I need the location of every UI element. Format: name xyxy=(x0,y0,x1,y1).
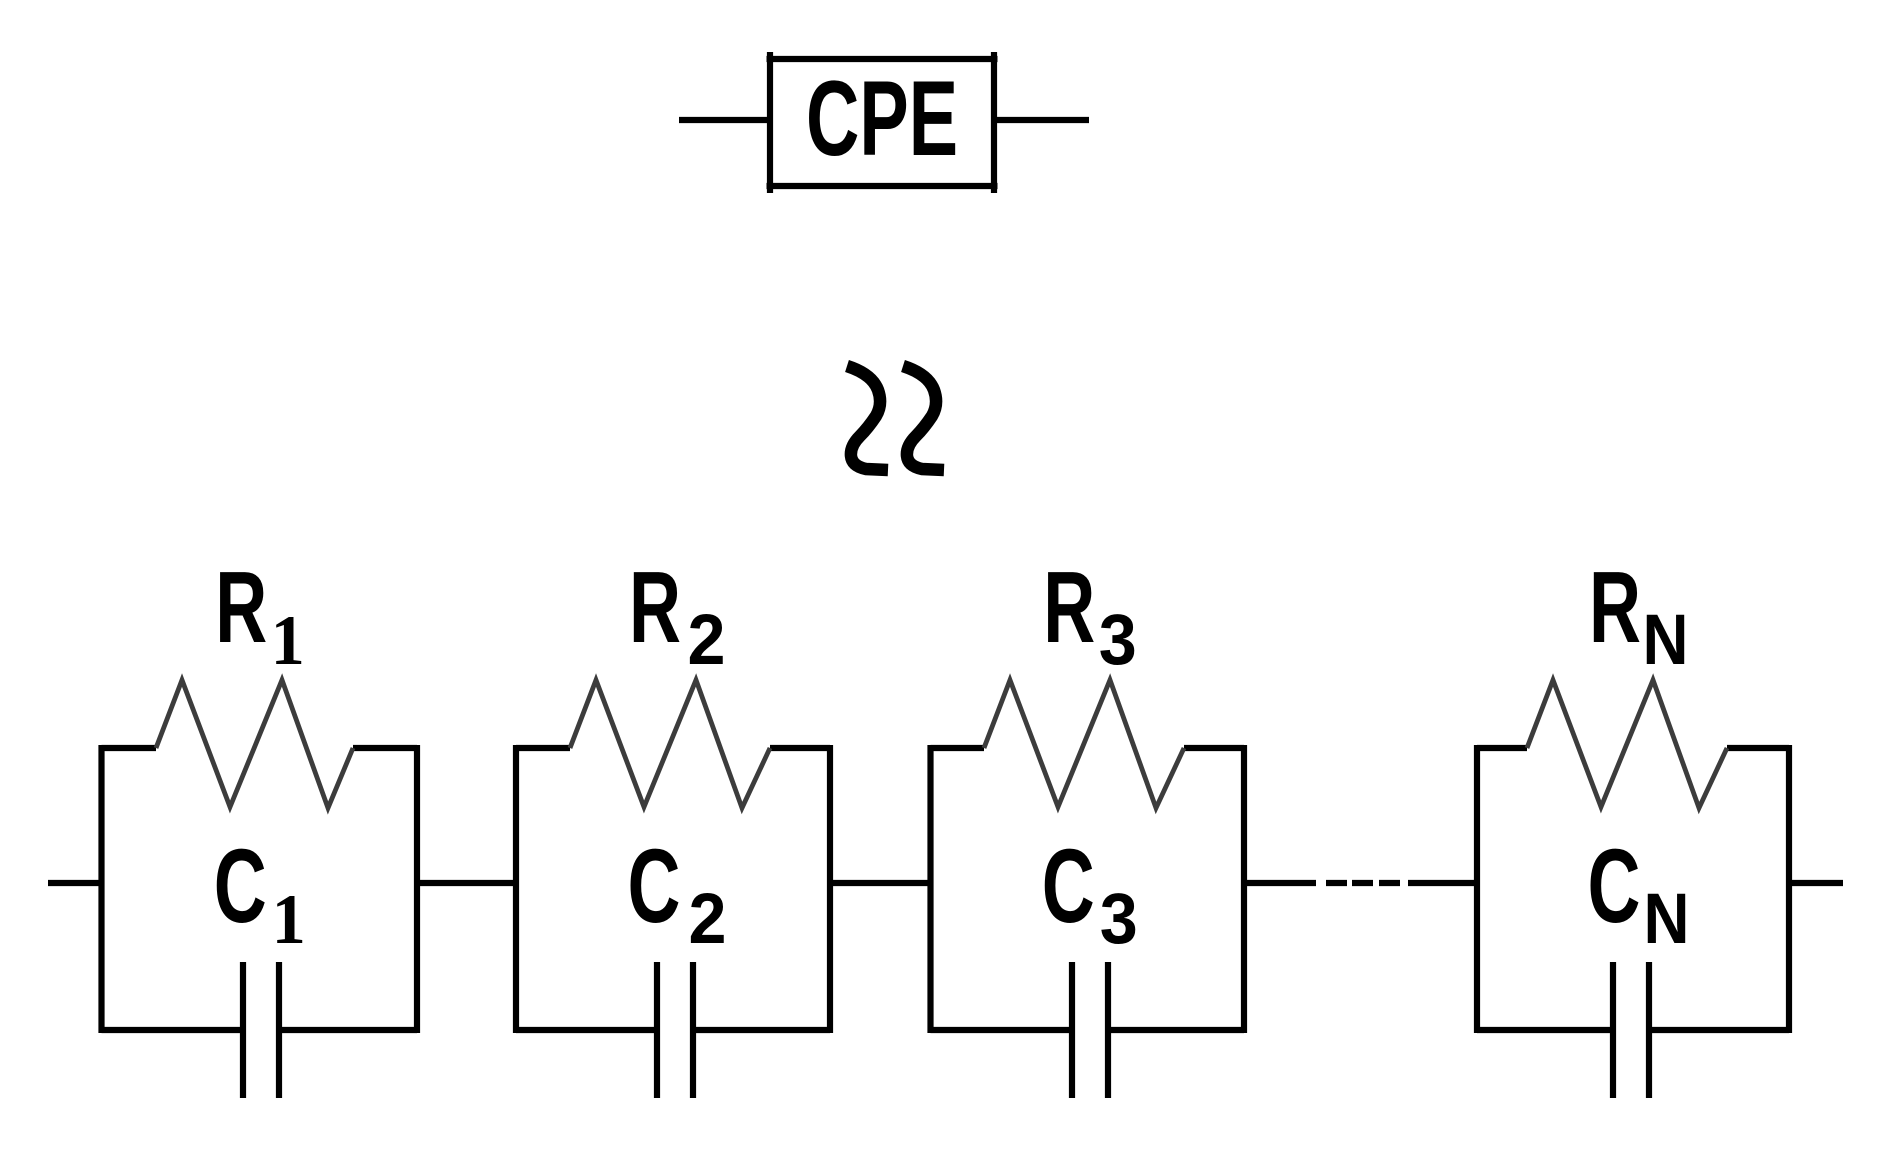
svg-text:3: 3 xyxy=(1099,601,1137,680)
svg-text:1: 1 xyxy=(272,881,306,959)
svg-text:R: R xyxy=(215,552,267,664)
svg-text:C: C xyxy=(1588,828,1641,945)
svg-text:N: N xyxy=(1643,601,1689,680)
svg-text:1: 1 xyxy=(271,602,305,680)
svg-text:2: 2 xyxy=(688,601,726,680)
svg-text:2: 2 xyxy=(689,880,727,959)
svg-text:3: 3 xyxy=(1100,880,1138,959)
svg-text:C: C xyxy=(1042,828,1095,945)
svg-text:C: C xyxy=(628,828,681,945)
svg-text:R: R xyxy=(629,552,681,664)
svg-text:R: R xyxy=(1043,552,1095,664)
svg-text:CPE: CPE xyxy=(806,58,958,178)
svg-text:R: R xyxy=(1589,552,1641,664)
svg-text:C: C xyxy=(214,828,267,945)
svg-text:N: N xyxy=(1644,880,1690,959)
